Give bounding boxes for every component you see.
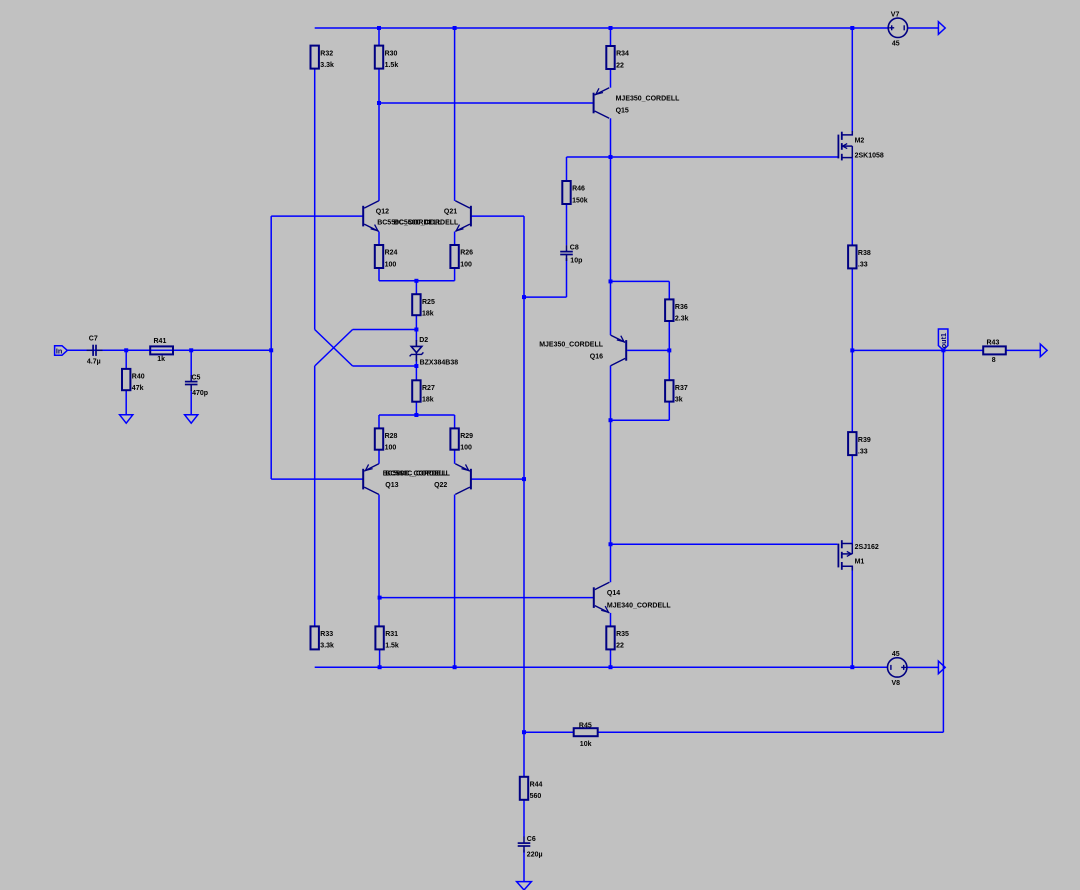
wire Q12 emitter to R24 [378, 232, 380, 246]
wire crossover diagonal A [315, 330, 353, 367]
port In [55, 346, 68, 356]
resistor R46 150k [562, 181, 587, 204]
wire C6 to ground [523, 850, 525, 882]
svg-text:22: 22 [616, 643, 624, 650]
resistor R24 100 [375, 245, 398, 268]
wire M2 drain [851, 28, 853, 132]
wire R30 to Q12 collector [378, 69, 380, 201]
wire C8 bottom [566, 258, 568, 297]
svg-text:100: 100 [460, 261, 472, 268]
svg-text:M1: M1 [855, 559, 865, 566]
svg-text:150k: 150k [572, 197, 588, 204]
wire R25 top [415, 281, 417, 294]
resistor R30 1.5k [375, 46, 399, 69]
svg-text:V7: V7 [891, 11, 900, 18]
svg-text:D2: D2 [419, 337, 428, 344]
transistor Q13 BC560C [363, 464, 450, 495]
svg-text:In: In [56, 347, 63, 356]
svg-text:10p: 10p [570, 258, 582, 265]
wire R39 to M1 source [851, 455, 853, 543]
svg-text:R45: R45 [579, 723, 592, 730]
svg-text:MJE350_CORDELL: MJE350_CORDELL [616, 95, 681, 102]
wire R35 bottom [610, 649, 612, 667]
wire R44 to C6 [523, 800, 525, 837]
svg-text:R40: R40 [132, 374, 145, 381]
transistor Q14 MJE340 [594, 582, 672, 613]
svg-text:1k: 1k [157, 356, 165, 363]
ground at R40 [120, 415, 133, 423]
svg-text:470p: 470p [192, 390, 208, 397]
svg-text:18k: 18k [422, 397, 434, 404]
wire R30 column [378, 28, 380, 46]
wire Q13 collector to R31 [378, 495, 380, 627]
wire feedback column [523, 216, 525, 732]
svg-text:Q13: Q13 [385, 482, 398, 489]
wire R28 to Q13 emitter [378, 450, 380, 464]
wire R36 top [668, 281, 670, 299]
wire R37 bottom [668, 402, 670, 421]
wire D2 bottom to R27 [415, 366, 417, 380]
resistor R35 22 [606, 626, 629, 649]
transistor Q16 MJE350 [539, 335, 626, 366]
svg-text:R31: R31 [385, 631, 398, 638]
svg-text:R41: R41 [154, 338, 167, 345]
svg-text:2SK1058: 2SK1058 [855, 152, 884, 159]
wire bottom -45V rail [315, 666, 888, 668]
svg-text:MJE350_CORDELL: MJE350_CORDELL [539, 342, 604, 349]
wire C5 to ground [190, 390, 192, 415]
svg-text:1.5k: 1.5k [385, 643, 399, 650]
wire R32 to crossover [314, 69, 316, 330]
svg-text:R43: R43 [987, 339, 1000, 346]
wire Q12 base [271, 215, 363, 217]
wire R36 to Q16 base node [668, 321, 670, 350]
wire R24 to pair rail [378, 268, 380, 281]
svg-text:R44: R44 [530, 782, 543, 789]
wire Q21 collector [454, 28, 456, 201]
svg-text:2.3k: 2.3k [675, 316, 689, 323]
transistor Q22 BC560C [383, 464, 471, 495]
svg-text:Q21: Q21 [444, 208, 457, 215]
svg-text:100: 100 [385, 445, 397, 452]
svg-text:18k: 18k [422, 311, 434, 318]
resistor R43 8 [983, 339, 1006, 364]
svg-text:2SJ162: 2SJ162 [855, 544, 879, 551]
wire Q16 base node to R37 [668, 350, 670, 380]
wire M1 gate [611, 543, 838, 545]
resistor R40 47k [122, 369, 145, 392]
svg-text:4.7µ: 4.7µ [87, 358, 101, 365]
resistor R39 .33 [848, 432, 871, 455]
svg-text:R25: R25 [422, 299, 435, 306]
svg-text:R26: R26 [460, 250, 473, 257]
svg-text:R36: R36 [675, 304, 688, 311]
wire M2 source to R38 [851, 158, 853, 246]
svg-text:R32: R32 [320, 50, 333, 57]
wire R34 to Q15 emitter [610, 69, 612, 88]
wire Q22 base [471, 478, 524, 480]
svg-text:out1: out1 [939, 333, 948, 348]
svg-text:Q22: Q22 [434, 482, 447, 489]
wire input bases vertical [270, 216, 272, 479]
voltage source V7 45 [888, 11, 907, 47]
resistor R41 1k [150, 338, 173, 363]
wire R44 top [523, 732, 525, 777]
svg-text:22: 22 [616, 62, 624, 69]
resistor R29 100 [450, 428, 473, 451]
wire out node to R39 [851, 350, 853, 432]
wire R40 top [125, 350, 127, 369]
svg-text:R46: R46 [572, 186, 585, 193]
capacitor C7 4.7u [87, 335, 103, 365]
port out1 [938, 329, 948, 350]
mosfet M1 2SJ162 [838, 540, 878, 570]
resistor R37 3k [665, 380, 688, 403]
wire R26 to pair rail [454, 268, 456, 281]
transistor Q21 BC550C [394, 201, 471, 232]
svg-text:R35: R35 [616, 631, 629, 638]
svg-text:MJE340_CORDELL: MJE340_CORDELL [607, 602, 672, 609]
wire Q15 collector node to M2 gate [567, 156, 838, 158]
svg-text:45: 45 [892, 651, 900, 658]
port arrow output [1040, 344, 1047, 357]
svg-text:R39: R39 [858, 437, 871, 444]
wire R46 to C8 [566, 204, 568, 245]
svg-text:1.5k: 1.5k [385, 62, 399, 69]
transistor Q15 MJE350 [594, 88, 681, 119]
wire Q16 collector to Q14 collector [610, 366, 612, 583]
svg-text:560: 560 [530, 793, 542, 800]
resistor R36 2.3k [665, 299, 689, 322]
wire R34 top [610, 28, 612, 46]
svg-text:BC550C_CORDELL: BC550C_CORDELL [394, 220, 459, 227]
wire R43 to port [1006, 349, 1041, 351]
svg-text:R28: R28 [385, 433, 398, 440]
svg-text:R33: R33 [320, 631, 333, 638]
resistor R28 100 [375, 428, 398, 451]
wire V8 to port [907, 666, 939, 668]
resistor R27 18k [412, 380, 435, 403]
svg-text:BZX384B38: BZX384B38 [420, 360, 459, 367]
wire Q21 emitter to R26 [454, 232, 456, 246]
svg-text:100: 100 [385, 261, 397, 268]
wire Q22 collector to bottom rail [454, 495, 456, 668]
wire R36 tap [611, 280, 670, 282]
svg-text:.33: .33 [858, 262, 868, 269]
wire D2 top node horizontal [353, 329, 417, 331]
diode D2 BZX384B38 [410, 337, 459, 367]
svg-text:R29: R29 [460, 433, 473, 440]
wire top +45V rail [315, 27, 889, 29]
port arrow +45 rail [938, 22, 945, 35]
wire R31 bottom [379, 649, 381, 667]
svg-text:R30: R30 [385, 50, 398, 57]
svg-text:Q15: Q15 [616, 108, 629, 115]
resistor R33 3.3k [311, 626, 335, 649]
wire V7 to port [908, 27, 939, 29]
svg-text:R37: R37 [675, 385, 688, 392]
svg-text:R27: R27 [422, 385, 435, 392]
wire R46 top [566, 157, 568, 181]
ground at C6 [517, 882, 532, 890]
svg-text:V8: V8 [892, 680, 901, 687]
svg-text:M2: M2 [855, 137, 865, 144]
wire Q15 node to Q16 emitter [610, 157, 612, 335]
resistor R31 1.5k [375, 626, 399, 649]
svg-text:3.3k: 3.3k [320, 643, 334, 650]
svg-text:Q12: Q12 [376, 208, 389, 215]
resistor R45 10k [574, 723, 598, 748]
wire C8 bottom link [524, 296, 567, 298]
wire R45 left [524, 731, 574, 733]
svg-text:Q14: Q14 [607, 590, 620, 597]
svg-text:BC560C_CORDELL: BC560C_CORDELL [383, 470, 448, 477]
wire D2 bottom node horizontal [353, 365, 417, 367]
svg-text:C5: C5 [192, 375, 201, 382]
resistor R26 100 [450, 245, 473, 268]
wire Q14 emitter to R35 [610, 613, 612, 627]
voltage source V8 45 [888, 651, 907, 687]
wire out1 column [942, 350, 944, 732]
wire R38 to out node [851, 268, 853, 350]
wire crossover diagonal B [315, 330, 353, 367]
resistor R32 3.3k [311, 46, 335, 69]
port arrow -45 rail [938, 661, 945, 674]
svg-text:47k: 47k [132, 385, 144, 392]
wire C5 top [190, 350, 192, 376]
svg-text:3.3k: 3.3k [320, 62, 334, 69]
svg-text:45: 45 [892, 41, 900, 48]
wire R24-R26 bottom rail [379, 280, 455, 282]
capacitor C6 220u [518, 836, 543, 858]
wire R40 to ground [125, 390, 127, 415]
ground at C5 [185, 415, 198, 423]
svg-text:C7: C7 [89, 335, 98, 342]
wire M1 drain to bottom rail [851, 566, 853, 667]
svg-text:C8: C8 [570, 245, 579, 252]
wire Q14 base [380, 597, 594, 599]
wire R30 bottom to Q15 base rail [379, 102, 594, 104]
svg-text:100: 100 [460, 445, 472, 452]
resistor R44 560 [520, 777, 543, 800]
wire R25 to D2 top node [415, 315, 417, 329]
capacitor C5 470p [185, 375, 208, 397]
wire Q21 base [471, 215, 524, 217]
svg-text:C6: C6 [527, 836, 536, 843]
wire R28 top [378, 415, 380, 428]
wire R29 to Q22 emitter [454, 450, 456, 464]
svg-text:Q16: Q16 [590, 353, 603, 360]
svg-text:R38: R38 [858, 250, 871, 257]
svg-text:.33: .33 [858, 448, 868, 455]
svg-text:10k: 10k [580, 741, 592, 748]
wire R29 top [454, 415, 456, 428]
resistor R34 22 [606, 46, 629, 69]
svg-text:220µ: 220µ [527, 851, 543, 858]
wire Q15 collector down [610, 118, 612, 157]
transistor Q12 BC550C [363, 201, 442, 232]
wire junction dots [124, 26, 945, 734]
wire Q16 base [627, 349, 669, 351]
wire R37 bottom tap [611, 419, 670, 421]
svg-text:R24: R24 [385, 250, 398, 257]
wire Q13 base [271, 478, 363, 480]
mosfet M2 2SK1058 [838, 131, 883, 160]
wire input rail [67, 349, 271, 351]
wire output rail [852, 349, 983, 351]
resistor R25 18k [412, 294, 435, 317]
resistor R38 .33 [848, 245, 871, 268]
wire R45 right to out1 column [598, 731, 944, 733]
wire crossover to R33 [314, 366, 316, 626]
wire R28-R29 top rail [379, 414, 455, 416]
wire D2 leads vertical [415, 330, 417, 367]
svg-text:R34: R34 [616, 51, 629, 58]
svg-text:3k: 3k [675, 397, 683, 404]
wire R27 bottom [415, 402, 417, 415]
capacitor C8 10p [560, 245, 582, 265]
svg-text:8: 8 [992, 357, 996, 364]
